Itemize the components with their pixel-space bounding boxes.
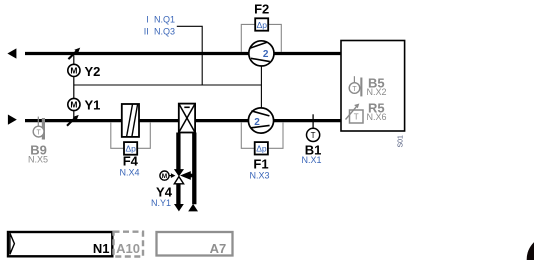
arrow flow-out left [7, 48, 16, 58]
svg-text:T: T [36, 129, 41, 136]
svg-text:N.X2: N.X2 [367, 87, 387, 97]
wire coil left drop pipe lower [176, 183, 180, 204]
arrow down (left drop outlet) [174, 204, 184, 211]
actuator M Y1 [68, 98, 101, 113]
arrow flow-in right [8, 115, 17, 125]
wire control line horizontal [74, 84, 262, 86]
wire coil left drop pipe [176, 133, 180, 170]
svg-text:2: 2 [263, 49, 269, 60]
svg-text:F1: F1 [253, 156, 268, 171]
wire pump control drop F2-F1 [260, 66, 262, 108]
actuator M Y4 [151, 171, 175, 208]
actuator M Y2 [68, 64, 101, 79]
svg-text:M: M [70, 65, 77, 75]
node label I N.Q1 [146, 15, 175, 25]
svg-text:F4: F4 [123, 153, 139, 168]
wire return pipe (bottom) [25, 119, 341, 122]
node label II N.Q3 [144, 27, 175, 37]
arrow up (right drop inlet) [188, 204, 198, 212]
svg-text:N.X6: N.X6 [367, 112, 387, 122]
wire bracket N.Q1/N.Q3 [177, 26, 202, 85]
svg-text:II: II [144, 27, 149, 37]
svg-text:N.Y1: N.Y1 [151, 198, 171, 208]
svg-text:N.X4: N.X4 [119, 167, 139, 177]
svg-text:Y2: Y2 [85, 64, 101, 79]
svg-text:N.X1: N.X1 [301, 155, 321, 165]
svg-text:Δp: Δp [256, 144, 267, 154]
svg-text:M: M [162, 173, 167, 180]
svg-text:Y1: Y1 [85, 98, 101, 113]
svg-text:F2: F2 [254, 2, 269, 17]
filter F4 [111, 104, 151, 177]
wire actuator line Y2-Y1 [73, 55, 75, 119]
module A7 [157, 232, 233, 256]
wire valve right stub [186, 174, 194, 178]
corner blob (logo edge) [527, 236, 534, 260]
svg-text:N1: N1 [93, 241, 110, 256]
svg-text:S01: S01 [398, 135, 405, 148]
sensor B5 (grey, in box) [349, 76, 386, 98]
module A10 (dashed) [114, 232, 144, 257]
svg-text:I: I [146, 15, 149, 25]
damper slash bottom with arrow [67, 115, 79, 126]
svg-text:N.X5: N.X5 [28, 155, 48, 165]
svg-text:T: T [354, 113, 359, 122]
valve Y4 three-way [174, 169, 191, 184]
svg-text:Δp: Δp [125, 144, 136, 154]
sensor B9 (grey) [28, 117, 48, 165]
svg-text:A7: A7 [210, 241, 227, 256]
cooling coil [179, 104, 195, 133]
svg-text:N.X3: N.X3 [249, 171, 269, 181]
svg-text:T: T [352, 86, 357, 93]
controller N1 [8, 232, 112, 256]
svg-text:A10: A10 [116, 241, 140, 256]
consumer box S01 [341, 41, 405, 148]
svg-text:2: 2 [254, 117, 260, 128]
svg-text:Δp: Δp [257, 20, 268, 30]
damper slash top with arrow [68, 48, 80, 60]
wire coil right drop pipe [192, 133, 196, 205]
pump F1 [241, 108, 283, 181]
svg-text:N.Q1: N.Q1 [154, 15, 175, 25]
wire supply pipe (top) [25, 52, 341, 55]
pump F2 [241, 2, 281, 66]
setpoint R5 (grey, in box) [346, 101, 387, 123]
svg-text:T: T [311, 131, 316, 140]
svg-text:M: M [70, 100, 77, 110]
svg-text:N.Q3: N.Q3 [154, 27, 175, 37]
sensor B1 [301, 114, 321, 165]
